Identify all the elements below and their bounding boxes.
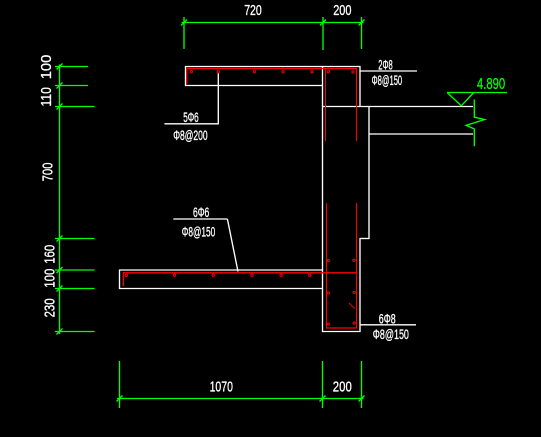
svg-text:720: 720 (244, 2, 262, 19)
svg-text:Φ8@150: Φ8@150 (373, 326, 409, 342)
svg-text:700: 700 (40, 163, 57, 182)
svg-text:1070: 1070 (210, 379, 233, 396)
svg-text:Φ8@200: Φ8@200 (173, 127, 208, 143)
svg-text:230: 230 (42, 298, 59, 317)
svg-text:100: 100 (42, 269, 59, 288)
svg-text:200: 200 (333, 379, 352, 396)
svg-text:5Φ6: 5Φ6 (183, 109, 199, 125)
svg-text:110: 110 (38, 87, 55, 106)
svg-text:6Φ6: 6Φ6 (193, 204, 209, 220)
svg-text:160: 160 (42, 245, 59, 264)
svg-text:Φ8@150: Φ8@150 (182, 224, 216, 240)
svg-text:100: 100 (38, 55, 55, 80)
svg-text:Φ8@150: Φ8@150 (372, 72, 403, 88)
svg-text:2Φ8: 2Φ8 (378, 56, 393, 72)
svg-text:4.890: 4.890 (477, 76, 505, 93)
svg-text:6Φ8: 6Φ8 (379, 310, 396, 326)
svg-text:200: 200 (333, 2, 351, 19)
